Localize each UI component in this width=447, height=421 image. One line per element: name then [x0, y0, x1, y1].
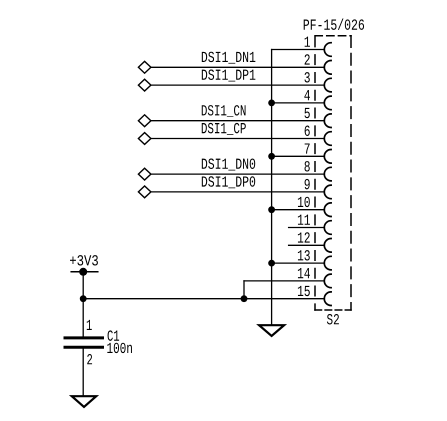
pin 13 arc [324, 256, 331, 270]
off-page diamond DSI1_DN1 [138, 61, 151, 73]
junction dot pin7 on GND bus [268, 153, 275, 160]
net label DSI1_DN0 [202, 159, 255, 171]
off-page diamond DSI1_DN0 [138, 168, 151, 180]
pin number 11 [298, 215, 310, 225]
pin number 13 [298, 250, 310, 260]
net label DSI1_DN1 [202, 52, 256, 64]
wire C1 pin 2 to ground [82, 349, 84, 395]
capacitor C1 top plate [65, 336, 103, 339]
pin 10 arc [324, 203, 331, 217]
capacitor refdes C1 [108, 330, 120, 340]
pin number 6 [305, 126, 310, 136]
connector S2 dashed outline bottom edge [315, 309, 351, 311]
off-page diamond DSI1_CP [138, 133, 151, 145]
net label DSI1_CN [202, 105, 246, 117]
pin 8 arc [324, 167, 331, 181]
wire pin14 branch vertical [243, 281, 245, 299]
ground symbol at GND bus bottom [259, 325, 284, 336]
off-page diamond DSI1_DP0 [138, 186, 151, 198]
supply symbol +3V3 dot [79, 268, 87, 276]
pin number 14 [298, 268, 310, 278]
wire pin4 from GND bus [272, 102, 325, 104]
pin number 4 [304, 90, 310, 100]
pin number 7 [305, 143, 310, 153]
pin number 1 [305, 37, 310, 47]
pin number 10 [298, 197, 310, 207]
wire pin6 from diamond DSI1_CP [151, 138, 325, 140]
wire pin1 to bus corner [272, 49, 325, 51]
junction dot pin14/pin15 node [241, 295, 248, 302]
connector S2 dashed outline top edge [315, 35, 351, 37]
wire pin12 stub [289, 244, 325, 246]
supply label +3V3 [70, 255, 98, 265]
connector refdes S2 [327, 314, 339, 324]
wire node down to C1 pin 1 [82, 299, 84, 337]
pin 1 arc [324, 43, 331, 57]
pin 14 arc [324, 274, 331, 288]
pin number 5 [305, 108, 310, 118]
pin number 15 [298, 286, 310, 296]
capacitor value 100n [107, 343, 132, 353]
pin number 9 [305, 179, 310, 189]
pin 4 arc [324, 96, 331, 110]
wire +3V3 down to node [82, 272, 84, 299]
pin number 8 [305, 161, 310, 171]
off-page diamond DSI1_CN [138, 115, 151, 127]
junction dot pin10 on GND bus [268, 206, 275, 213]
pin 2 arc [324, 61, 331, 75]
junction dot pin13 on GND bus [268, 260, 275, 267]
wire pin9 from diamond DSI1_DP0 [151, 191, 325, 193]
pin 12 arc [324, 239, 331, 253]
net label DSI1_DP1 [202, 70, 256, 82]
supply symbol +3V3 bar [71, 271, 98, 273]
wire GND bus vertical [271, 50, 273, 325]
pin number 3 [305, 72, 310, 82]
pin 3 arc [324, 78, 331, 92]
pin 6 arc [324, 132, 331, 146]
off-page diamond DSI1_DP1 [138, 79, 151, 91]
pin 5 arc [324, 114, 331, 128]
wire pin5 from diamond DSI1_CN [151, 120, 325, 122]
pin number 2 [305, 54, 310, 64]
wire pin3 from diamond DSI1_DP1 [151, 84, 325, 86]
pin 11 arc [324, 221, 331, 235]
capacitor C1 bottom plate [65, 346, 103, 349]
wire pin8 from diamond DSI1_DN0 [151, 173, 325, 175]
wire pin11 stub [289, 227, 325, 229]
connector S2 dashed outline right edge [350, 36, 352, 310]
capacitor C1 pin 1 label [87, 320, 92, 330]
wire pin7 from GND bus [272, 155, 325, 157]
pin number 12 [298, 232, 310, 242]
capacitor C1 pin 2 label [87, 354, 92, 364]
pin 9 arc [324, 185, 331, 199]
junction dot +3V3 node [80, 295, 87, 302]
connector S2 dashed outline left edge [314, 36, 316, 310]
junction dot pin4 on GND bus [268, 100, 275, 107]
wire pin13 from GND bus [272, 262, 325, 264]
ground symbol below C1 [72, 396, 96, 407]
pin 15 arc [324, 292, 331, 306]
net label DSI1_DP0 [202, 176, 255, 188]
pin 7 arc [324, 150, 331, 164]
connector label PF-15/026 [304, 19, 364, 30]
wire pin14 horizontal [244, 280, 324, 282]
net label DSI1_CP [202, 123, 246, 135]
wire pin2 from diamond DSI1_DN1 [151, 66, 325, 68]
wire pin10 from GND bus [272, 209, 325, 211]
wire pin15 to +3V3 node [83, 298, 324, 300]
